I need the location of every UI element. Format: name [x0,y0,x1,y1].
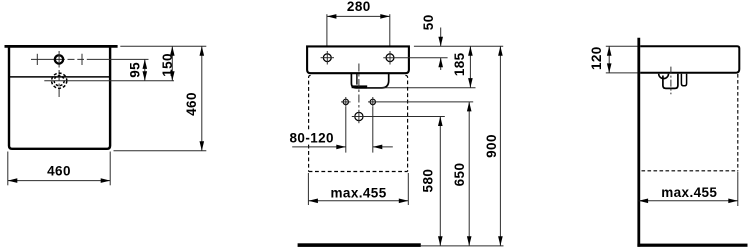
dim 900 line [499,46,501,246]
bowl bottom leader to 185 dim [367,87,476,89]
vertical centerline [358,64,360,109]
basin body outline [9,47,110,149]
vertical centerline through tap and drain [58,51,60,97]
hidden siphon cover dashed left [309,75,311,171]
svg-text:650: 650 [452,163,467,187]
tap hole mark right [81,54,83,65]
drain dashed circle outer [52,73,67,88]
dim max.455 line middle [308,200,408,202]
dim 650 line [468,102,470,246]
max depth dashed horizontal [642,170,738,172]
floor slab middle [298,243,421,247]
tap hole right leader to 50/185 dims [383,57,447,59]
hidden siphon cover dashed right [405,75,407,171]
basin body front outline [307,46,409,73]
supply connection right [370,99,375,104]
max depth dashed vertical [737,74,739,171]
extension from supply right [372,107,374,153]
top edge leader [120,45,206,47]
svg-text:185: 185 [452,52,467,76]
tap hole right [386,54,394,62]
dim 185 line [469,46,471,87]
svg-text:50: 50 [421,14,436,30]
svg-text:280: 280 [347,0,371,14]
svg-text:460: 460 [184,92,199,116]
drain horizontal leader [44,80,174,82]
dim 95 line [144,59,146,80]
tap hole U1 [55,55,63,63]
dim 580 line [439,117,441,246]
bottom edge leader [114,150,207,152]
bowl underside outline [351,73,388,88]
svg-text:150: 150 [160,53,175,77]
dim 280 line [327,15,390,17]
basin back rim bar [5,45,118,48]
floor reference line [421,245,504,247]
svg-text:max.455: max.455 [661,185,717,200]
extension from supply left [345,107,347,153]
dim 460 horizontal line [8,180,110,182]
dim 150 line [171,46,173,80]
max.455 extension left [307,173,309,205]
dim 80-120 line left [292,146,346,148]
floor line right view [637,244,747,247]
svg-text:460: 460 [47,163,71,178]
siphon centerline [670,67,672,95]
bowl inner edge [356,73,358,84]
faucet centerline horizontal [31,58,149,60]
svg-text:900: 900 [484,134,499,158]
svg-text:95: 95 [127,62,142,78]
svg-text:80-120: 80-120 [290,130,334,145]
drain outlet dark segment [352,85,368,88]
extension line left bottom [7,152,9,186]
dim 460 vertical line [201,46,203,150]
leader bottom edge [606,72,638,74]
supply leader to 650 dim [368,101,473,103]
dim 80-120 label [288,130,338,145]
svg-text:580: 580 [421,169,436,193]
wall line [637,38,640,247]
waste leader to 580 dim [352,116,445,118]
dim 120 line [608,46,610,73]
max.455 extension right [407,173,409,205]
svg-text:120: 120 [589,46,604,70]
drain flange dome [659,74,669,79]
rim top leader right [414,45,503,47]
max.455 extension right [737,172,739,207]
extension line right bottom [109,152,111,186]
drain dashed circle inner [54,76,64,86]
dim 50 line [440,28,442,47]
tap hole mark left [36,54,38,65]
dim 280 extension left [326,14,328,46]
leader top edge [606,45,638,47]
dim 280 extension right [389,14,391,46]
basin inner edge line [9,76,110,78]
waste outlet symbol [355,112,363,120]
dim 80-120 line right [373,146,393,148]
dim max.455 line right [639,200,738,202]
supply connection left [343,99,348,104]
tap hole left [323,54,331,62]
basin side profile [640,46,739,72]
siphon outlet tab [681,74,686,86]
svg-text:max.455: max.455 [331,185,387,200]
siphon tub profile [663,74,678,89]
hidden siphon cover dashed bottom [309,171,408,173]
